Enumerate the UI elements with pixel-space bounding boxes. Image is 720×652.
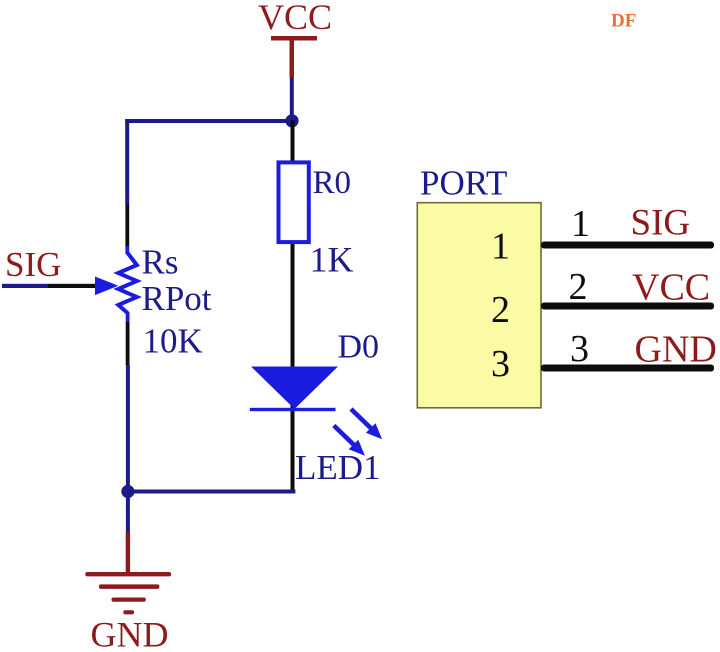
svg-text:2: 2 <box>491 289 510 331</box>
node A junction dot <box>285 114 298 127</box>
pin 1 line <box>541 242 714 249</box>
svg-text:GND: GND <box>635 329 717 371</box>
svg-text:SIG: SIG <box>631 203 691 244</box>
pin Rs bottom (black) <box>126 322 130 365</box>
potentiometer wiper arrow <box>95 277 118 296</box>
wire bottom horizontal (navy) <box>128 490 296 494</box>
svg-text:3: 3 <box>491 343 510 385</box>
wire top horizontal node A to pot branch <box>125 119 292 123</box>
wire left vertical upper (navy) <box>125 119 129 204</box>
svg-text:SIG: SIG <box>5 245 61 284</box>
svg-text:VCC: VCC <box>258 0 332 37</box>
pin R0 top (black) <box>291 120 295 161</box>
wire SIG horizontal (navy part) <box>2 284 48 288</box>
connector PORT body <box>417 203 541 408</box>
svg-text:10K: 10K <box>143 322 203 361</box>
svg-text:1: 1 <box>571 203 590 245</box>
svg-text:D0: D0 <box>338 329 380 366</box>
pin wiper horizontal (black part) <box>48 284 96 288</box>
node B junction dot (bottom left) <box>121 485 134 498</box>
svg-text:3: 3 <box>570 328 589 370</box>
svg-text:PORT: PORT <box>420 163 507 202</box>
LED D0 anode triangle <box>251 367 338 410</box>
svg-text:1: 1 <box>491 226 510 268</box>
wire pot top lead (navy) <box>125 246 129 254</box>
svg-text:R0: R0 <box>313 165 352 201</box>
wire VCC stem to node A (navy) <box>290 77 294 121</box>
wire left vertical lower (navy) <box>126 365 130 492</box>
svg-text:1K: 1K <box>310 240 354 280</box>
LED light arrow lower <box>334 426 365 456</box>
LED D0 cathode bar <box>250 408 336 411</box>
pin R0 bottom / wire to LED (black) <box>291 244 295 491</box>
pin 2 line <box>541 303 714 310</box>
pin 3 line <box>541 365 714 372</box>
svg-text:DF: DF <box>611 11 636 32</box>
VCC pin stem (red) <box>290 40 295 77</box>
pin GND stem (dark red) <box>126 533 130 573</box>
potentiometer Rs zigzag <box>118 253 137 313</box>
pin Rs top (black) <box>125 204 129 247</box>
svg-text:2: 2 <box>569 266 588 308</box>
wire pot bottom lead (navy) <box>126 312 130 322</box>
svg-text:Rs: Rs <box>142 243 179 282</box>
svg-text:LED1: LED1 <box>295 448 381 487</box>
ground symbol <box>85 572 171 614</box>
LED light arrow upper <box>351 409 382 439</box>
resistor R0 body <box>279 162 309 242</box>
svg-text:VCC: VCC <box>632 266 710 308</box>
wire GND stem upper (navy) <box>126 492 130 533</box>
svg-text:GND: GND <box>91 615 169 652</box>
power symbol VCC bar <box>271 36 317 41</box>
svg-text:RPot: RPot <box>142 279 212 318</box>
